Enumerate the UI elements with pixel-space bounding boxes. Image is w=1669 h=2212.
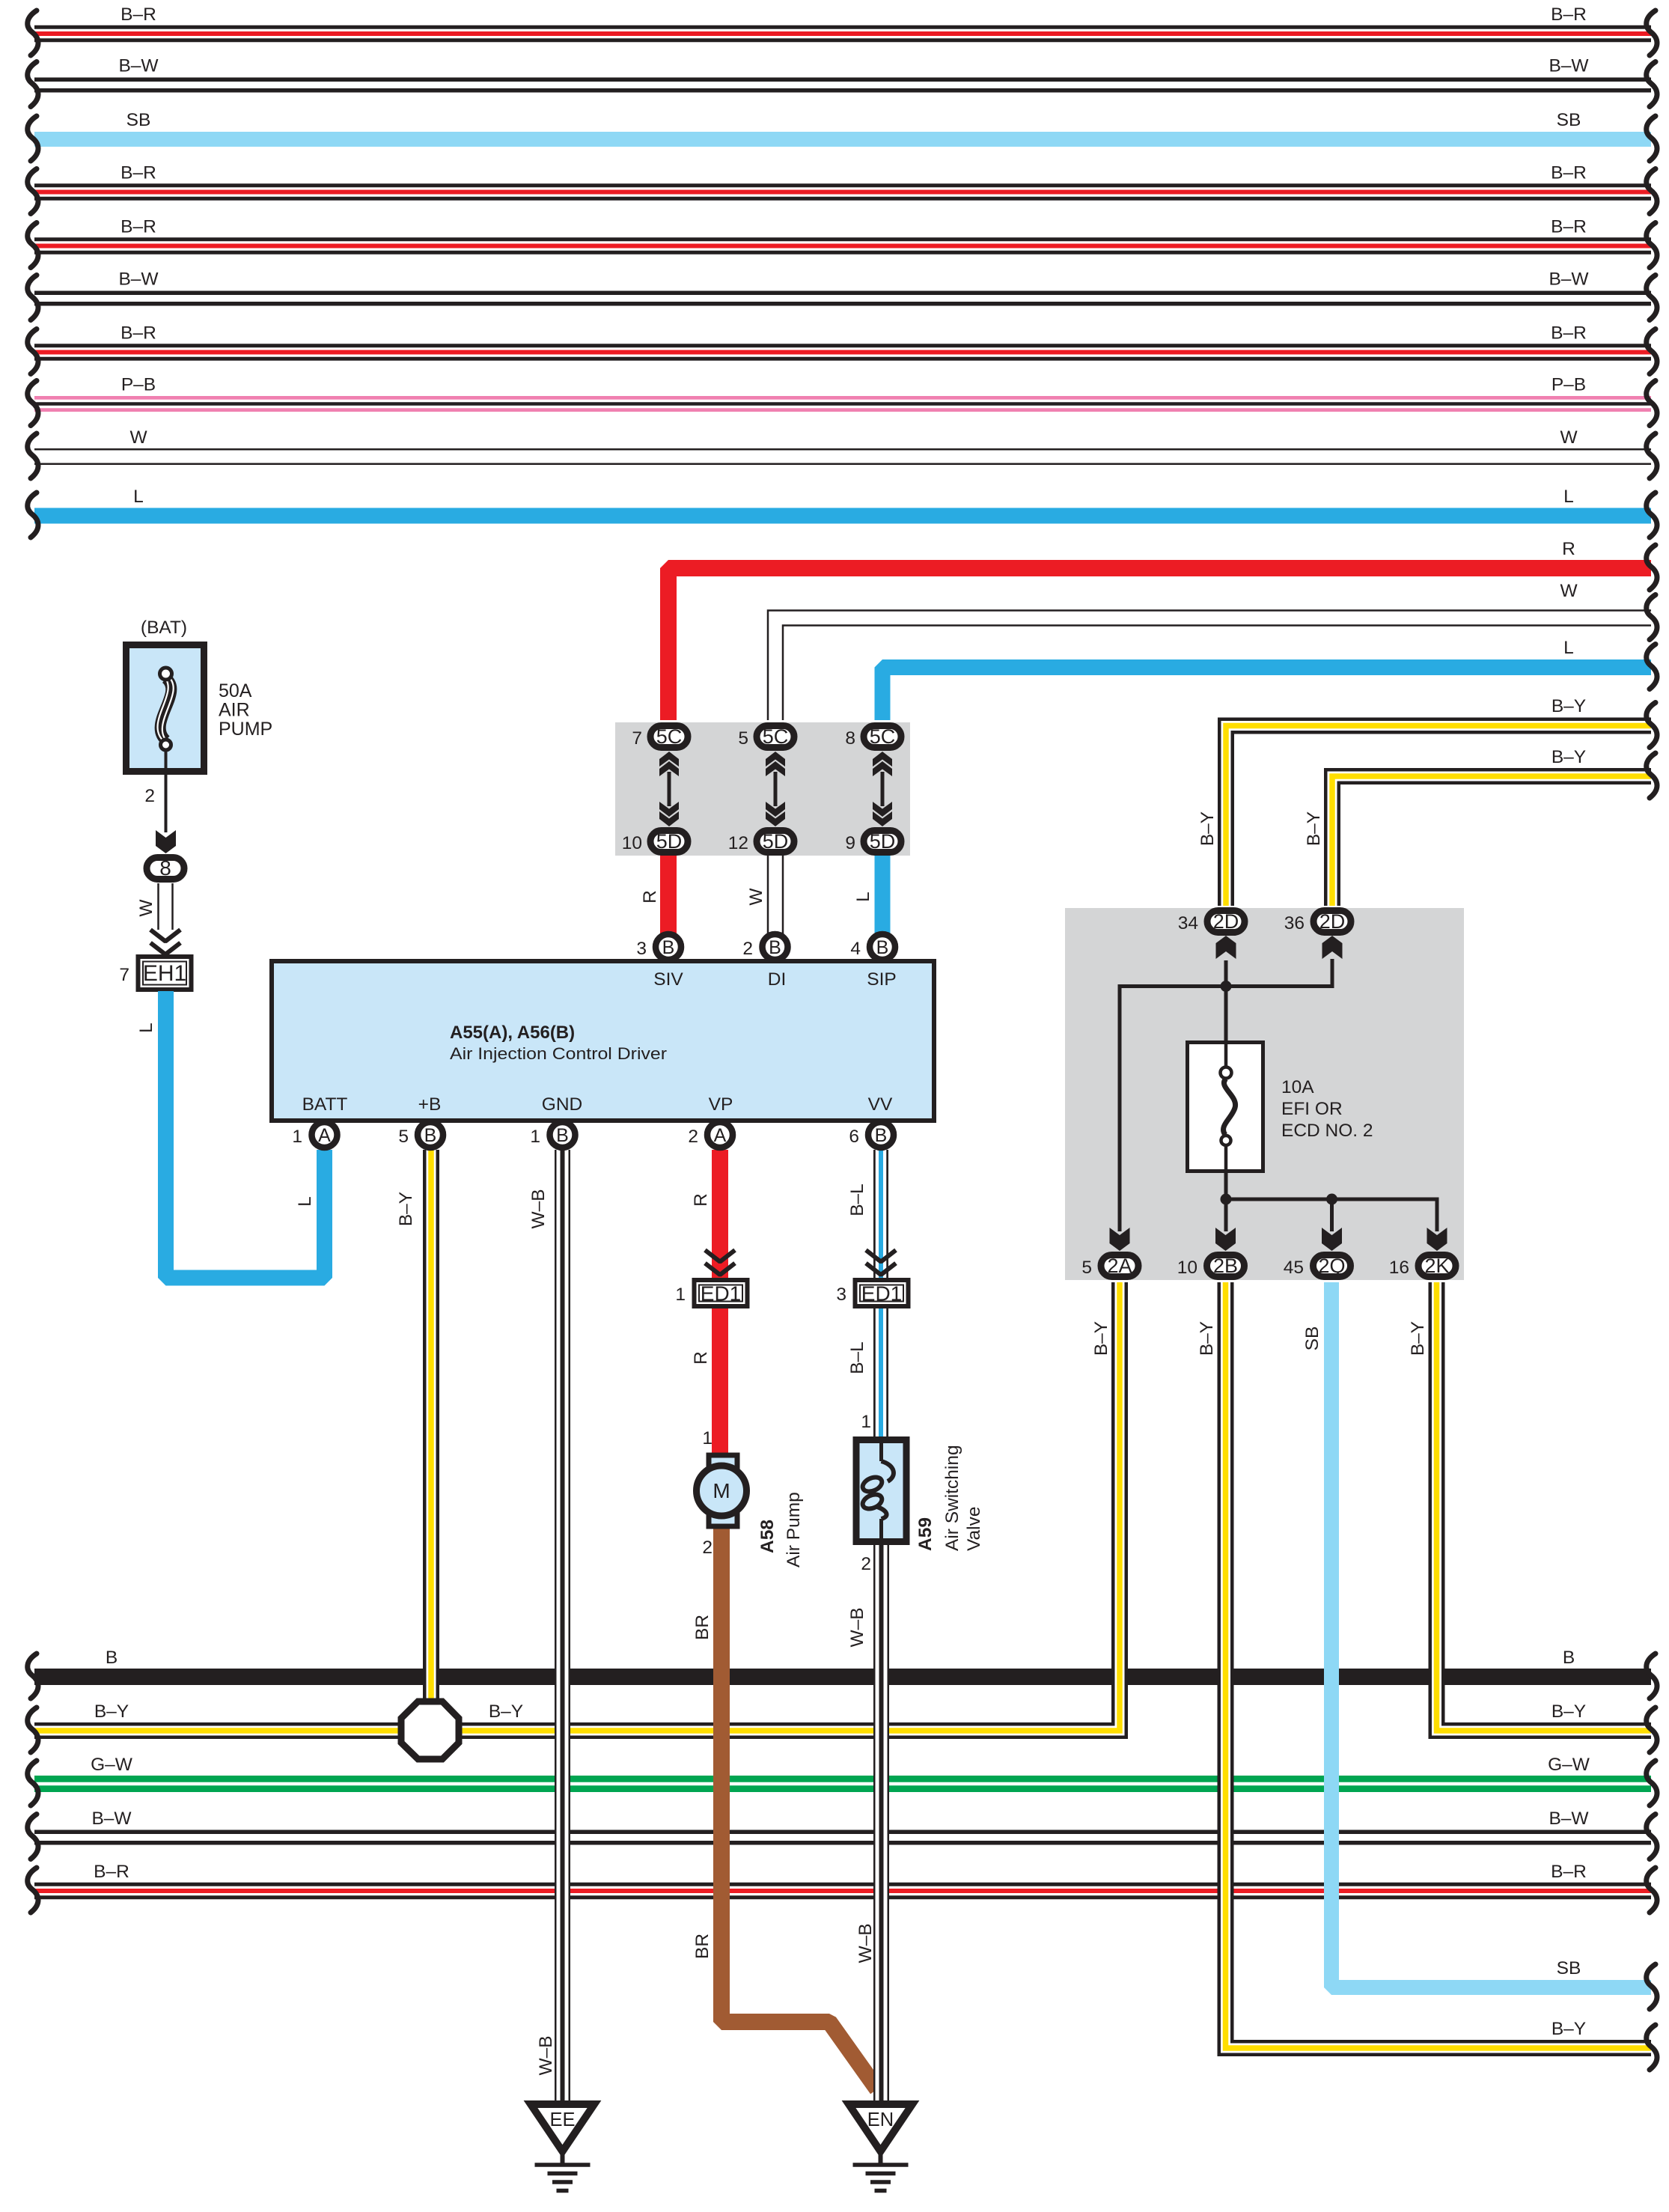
svg-text:Air Switching: Air Switching xyxy=(942,1445,962,1551)
connector 10 5D xyxy=(622,830,688,853)
svg-text:9: 9 xyxy=(845,833,855,853)
svg-text:B–Y: B–Y xyxy=(1408,1321,1428,1356)
wire G-W bus (bottom) xyxy=(28,1755,1657,1806)
svg-text:45: 45 xyxy=(1284,1258,1304,1278)
svg-text:EE: EE xyxy=(549,2109,575,2130)
wire SB (45-2Q to right edge) xyxy=(1302,1282,1657,2009)
wire junction to 16-2K xyxy=(1226,1199,1437,1231)
fuse 10A EFI OR ECD NO. 2 xyxy=(1188,1042,1373,1171)
svg-text:SB: SB xyxy=(1302,1326,1322,1351)
svg-text:5: 5 xyxy=(398,1127,409,1147)
pin 2 A (VP) xyxy=(688,1122,733,1148)
wire W (connector 8 to EH1) xyxy=(136,883,180,954)
wire fuse pin 2 to connector 8 xyxy=(144,775,176,853)
wire R (ED1 to air pump motor) xyxy=(691,1308,720,1456)
svg-text:ED1: ED1 xyxy=(701,1282,741,1305)
double arrow 8-5C to 9-5D xyxy=(881,772,885,806)
wire B-Y bus (bottom left, octagon junction to 5-2A) xyxy=(28,1282,1120,1752)
connector 45 2Q xyxy=(1284,1255,1351,1278)
svg-text:SB: SB xyxy=(1557,1958,1581,1978)
svg-text:GND: GND xyxy=(542,1094,582,1115)
svg-text:B: B xyxy=(1563,1648,1575,1668)
svg-text:W–B: W–B xyxy=(528,1189,549,1228)
node lower junction 2 xyxy=(1326,1194,1337,1205)
wire L (5D to SIP) xyxy=(875,853,891,934)
svg-text:5D: 5D xyxy=(656,830,683,853)
wire L (EH1 to BATT pin 1A) xyxy=(136,991,325,1278)
arrow into 16 2K xyxy=(1427,1228,1447,1251)
svg-text:10: 10 xyxy=(1177,1258,1197,1278)
svg-text:P–B: P–B xyxy=(121,375,156,395)
connector 16 2K xyxy=(1389,1255,1456,1278)
svg-text:G–W: G–W xyxy=(91,1755,133,1775)
wire W bus 9 xyxy=(28,427,1657,478)
svg-text:+B: +B xyxy=(418,1094,442,1115)
svg-text:B: B xyxy=(769,937,781,958)
svg-text:B–W: B–W xyxy=(1549,269,1589,290)
svg-text:SB: SB xyxy=(126,110,151,130)
wire B-W bus (bottom) xyxy=(28,1809,1657,1859)
wire fuse to lower junction xyxy=(1224,1171,1228,1231)
svg-text:2D: 2D xyxy=(1213,910,1239,933)
connector 1 ED1 xyxy=(675,1280,747,1306)
wire R (to 7-5C) xyxy=(640,539,1657,904)
ground EN xyxy=(849,2104,912,2151)
svg-text:2B: 2B xyxy=(1213,1255,1238,1277)
svg-text:7: 7 xyxy=(632,728,642,749)
svg-text:2: 2 xyxy=(688,1127,698,1147)
wire B-W bus 2 xyxy=(28,56,1657,107)
svg-text:B–Y: B–Y xyxy=(1304,811,1324,846)
wire L bus 10 xyxy=(28,487,1657,537)
svg-text:W: W xyxy=(1560,427,1578,448)
svg-text:L: L xyxy=(1563,487,1574,507)
svg-text:L: L xyxy=(295,1196,315,1207)
svg-text:SIP: SIP xyxy=(867,969,897,990)
wire B-R bus (bottom) xyxy=(28,1862,1657,1913)
wire B-Y (to 36-2D) xyxy=(1304,747,1657,906)
svg-text:W–B: W–B xyxy=(847,1607,867,1647)
wire R (5D to SIV) xyxy=(660,853,677,934)
svg-text:W: W xyxy=(129,427,147,448)
svg-text:A55(A), A56(B): A55(A), A56(B) xyxy=(450,1023,575,1043)
svg-text:Valve: Valve xyxy=(964,1507,984,1551)
svg-text:B–Y: B–Y xyxy=(1551,696,1586,716)
svg-text:8: 8 xyxy=(845,728,855,749)
svg-text:G–W: G–W xyxy=(1548,1755,1590,1775)
svg-text:SB: SB xyxy=(1557,110,1581,130)
svg-text:L: L xyxy=(1563,638,1574,658)
wire R (VP to ED1) xyxy=(691,1150,735,1280)
connector 8 5C xyxy=(845,725,901,749)
svg-text:ED1: ED1 xyxy=(861,1282,902,1305)
svg-text:EN: EN xyxy=(867,2109,894,2130)
wire B-L (ED1 to air switching valve) xyxy=(847,1308,881,1439)
svg-text:1: 1 xyxy=(292,1127,302,1147)
solenoid valve A59 Air Switching Valve xyxy=(856,1440,984,1552)
svg-text:7: 7 xyxy=(119,965,129,985)
node lower junction 1 xyxy=(1221,1194,1232,1205)
svg-text:2: 2 xyxy=(702,1538,713,1558)
connector 36 2D xyxy=(1284,910,1351,933)
svg-text:ECD NO. 2: ECD NO. 2 xyxy=(1281,1121,1373,1141)
svg-text:5C: 5C xyxy=(870,725,896,748)
svg-text:B–W: B–W xyxy=(118,269,159,290)
svg-text:2: 2 xyxy=(861,1554,871,1574)
svg-text:(BAT): (BAT) xyxy=(141,618,187,638)
svg-text:8: 8 xyxy=(159,856,171,880)
svg-text:1: 1 xyxy=(675,1285,686,1305)
arrow into 10 2B xyxy=(1215,1228,1236,1251)
wire L (to 8-5C) xyxy=(853,638,1657,902)
svg-text:2Q: 2Q xyxy=(1318,1255,1345,1277)
svg-text:B–R: B–R xyxy=(1551,1862,1587,1882)
svg-text:AIR: AIR xyxy=(219,700,250,721)
svg-text:W: W xyxy=(1560,581,1578,601)
svg-text:B–Y: B–Y xyxy=(1551,747,1586,767)
svg-text:1: 1 xyxy=(530,1127,540,1147)
wire B-L (VV to ED1) xyxy=(847,1150,896,1280)
svg-text:DI: DI xyxy=(768,969,787,990)
svg-text:B–R: B–R xyxy=(94,1862,129,1882)
svg-text:BR: BR xyxy=(692,1615,713,1640)
wire B-W bus 6 xyxy=(28,269,1657,320)
wire B-Y (16-2K to right edge) xyxy=(1408,1282,1657,1752)
svg-text:B–Y: B–Y xyxy=(94,1701,129,1722)
svg-text:B: B xyxy=(424,1125,437,1146)
wire 34-2D to junction xyxy=(1224,960,1228,1041)
pin 4 B (SIP) xyxy=(850,934,895,960)
arrow into 34 2D xyxy=(1216,936,1236,959)
svg-text:R: R xyxy=(1562,539,1575,559)
svg-text:B–Y: B–Y xyxy=(489,1701,523,1722)
wire W (5D to DI) xyxy=(767,853,769,934)
svg-text:6: 6 xyxy=(849,1127,859,1147)
svg-text:SIV: SIV xyxy=(653,969,683,990)
svg-text:B–W: B–W xyxy=(1549,56,1589,76)
svg-text:L: L xyxy=(853,892,873,902)
svg-text:B–R: B–R xyxy=(1551,4,1587,25)
motor A58 Air Pump xyxy=(697,1455,805,1567)
wire junction to 36-2D xyxy=(1226,959,1332,987)
ground EE xyxy=(531,2104,594,2151)
wire B-Y (+B to octagon junction) xyxy=(396,1150,431,1714)
svg-text:Air Pump: Air Pump xyxy=(784,1492,804,1567)
svg-text:B–R: B–R xyxy=(120,323,156,344)
svg-text:A59: A59 xyxy=(915,1517,936,1551)
svg-text:A: A xyxy=(318,1125,331,1146)
svg-text:B: B xyxy=(875,1125,888,1146)
connector 34 2D xyxy=(1178,910,1245,933)
wire P-B bus 8 xyxy=(28,375,1657,426)
wire W (to 5-5C) xyxy=(746,581,1657,906)
wire junction to 5-2A xyxy=(1120,987,1226,1232)
svg-text:M: M xyxy=(713,1479,730,1502)
pin 2 B (DI) xyxy=(742,934,787,960)
wire B bus (bottom) xyxy=(28,1648,1657,1698)
svg-text:3: 3 xyxy=(836,1285,846,1305)
arrow into 45 2Q xyxy=(1322,1228,1342,1251)
svg-text:5C: 5C xyxy=(656,725,683,748)
svg-text:2: 2 xyxy=(144,786,155,806)
wire B-R bus 4 xyxy=(28,163,1657,214)
svg-text:B–Y: B–Y xyxy=(1091,1321,1111,1356)
svg-text:5D: 5D xyxy=(870,830,896,853)
connector 5 2A xyxy=(1081,1255,1138,1278)
svg-text:B–R: B–R xyxy=(1551,163,1587,183)
svg-text:B–Y: B–Y xyxy=(1197,811,1218,846)
connector 7 EH1 xyxy=(119,957,191,990)
wire B-R bus 1 xyxy=(28,4,1657,55)
svg-text:VP: VP xyxy=(709,1094,733,1115)
svg-text:B–L: B–L xyxy=(847,1341,867,1374)
svg-text:B–R: B–R xyxy=(120,4,156,25)
svg-text:B–Y: B–Y xyxy=(396,1192,416,1226)
svg-text:BATT: BATT xyxy=(302,1094,348,1115)
svg-text:5C: 5C xyxy=(763,725,789,748)
junction block 5C/5D (gray panel) xyxy=(615,722,910,856)
svg-text:B–R: B–R xyxy=(1551,323,1587,344)
wire W-B (GND to EE ground) xyxy=(528,1150,563,2100)
svg-text:PUMP: PUMP xyxy=(219,719,272,740)
wire B-Y (10-2B to right edge bottom) xyxy=(1197,1282,1657,2070)
svg-text:R: R xyxy=(640,890,660,904)
connector 5 5C xyxy=(738,725,794,749)
svg-text:2K: 2K xyxy=(1424,1255,1449,1277)
wire W-B (valve to EN ground) xyxy=(847,1544,882,2100)
svg-text:B: B xyxy=(876,937,889,958)
pin 1 B (GND) xyxy=(530,1122,575,1148)
double arrow 7-5C to 10-5D xyxy=(668,772,671,806)
svg-text:EFI OR: EFI OR xyxy=(1281,1099,1343,1119)
connector 7 5C xyxy=(632,725,688,749)
svg-text:R: R xyxy=(691,1193,711,1207)
ECU A55/A56 Air Injection Control Driver xyxy=(272,961,934,1121)
svg-text:B–Y: B–Y xyxy=(1551,2019,1586,2039)
svg-text:12: 12 xyxy=(728,833,748,853)
svg-text:A58: A58 xyxy=(757,1520,778,1553)
junction block 2A/2B/2D/2K/2Q with fuse (gray panel) xyxy=(1065,908,1464,1280)
svg-text:VV: VV xyxy=(868,1094,893,1115)
svg-text:3: 3 xyxy=(636,939,647,959)
fuse 50A AIR PUMP (BAT) xyxy=(126,618,273,775)
svg-text:Air Injection Control Driver: Air Injection Control Driver xyxy=(450,1044,668,1063)
svg-text:10A: 10A xyxy=(1281,1077,1314,1097)
pin 5 B (+B) xyxy=(398,1122,443,1148)
pin 6 B (VV) xyxy=(849,1122,894,1148)
svg-text:B–Y: B–Y xyxy=(1551,1701,1586,1722)
svg-text:B–L: B–L xyxy=(847,1183,867,1216)
arrow into 5 2A xyxy=(1110,1228,1130,1251)
svg-text:B–W: B–W xyxy=(91,1809,132,1829)
svg-text:2A: 2A xyxy=(1107,1255,1132,1277)
svg-text:1: 1 xyxy=(702,1428,713,1448)
wire B-Y (to 34-2D) xyxy=(1197,696,1657,906)
svg-text:B–R: B–R xyxy=(120,217,156,237)
svg-text:EH1: EH1 xyxy=(143,961,186,986)
wire B-R bus 5 xyxy=(28,217,1657,268)
double arrow 5-5C to 12-5D xyxy=(774,772,778,806)
svg-text:W–B: W–B xyxy=(536,2035,556,2075)
svg-text:2: 2 xyxy=(742,939,753,959)
svg-text:P–B: P–B xyxy=(1551,375,1586,395)
wire junction to 45-2Q xyxy=(1330,1199,1334,1231)
svg-text:A: A xyxy=(714,1125,727,1146)
svg-text:5: 5 xyxy=(738,728,748,749)
svg-text:W: W xyxy=(746,888,766,906)
svg-text:B–R: B–R xyxy=(120,163,156,183)
svg-text:B: B xyxy=(106,1648,118,1668)
svg-text:B: B xyxy=(556,1125,569,1146)
svg-text:50A: 50A xyxy=(219,680,252,701)
svg-text:L: L xyxy=(133,487,144,507)
svg-text:5D: 5D xyxy=(763,830,789,853)
svg-text:10: 10 xyxy=(622,833,642,853)
svg-text:16: 16 xyxy=(1389,1258,1409,1278)
svg-text:4: 4 xyxy=(850,939,861,959)
connector 9 5D xyxy=(845,830,901,853)
svg-text:BR: BR xyxy=(692,1934,713,1959)
svg-text:B–W: B–W xyxy=(1549,1809,1589,1829)
svg-text:B–W: B–W xyxy=(118,56,159,76)
connector 10 2B xyxy=(1177,1255,1245,1278)
svg-text:B–R: B–R xyxy=(1551,217,1587,237)
arrow into 36 2D xyxy=(1322,936,1343,959)
svg-text:L: L xyxy=(136,1023,156,1033)
connector 12 5D xyxy=(728,830,794,853)
svg-text:W: W xyxy=(136,899,156,917)
connector 3 ED1 xyxy=(836,1280,908,1306)
pin 3 B (SIV) xyxy=(636,934,681,960)
pin 1 A (BATT) xyxy=(292,1122,337,1148)
svg-text:B–Y: B–Y xyxy=(1197,1321,1217,1356)
wire BR (air pump to EN ground) xyxy=(692,1526,877,2089)
connector 8 (round) xyxy=(147,858,184,880)
svg-text:2D: 2D xyxy=(1319,910,1346,933)
svg-text:W–B: W–B xyxy=(855,1923,876,1963)
svg-text:B: B xyxy=(662,937,675,958)
svg-text:36: 36 xyxy=(1284,913,1305,933)
node octagon junction (B-Y) xyxy=(401,1701,459,1759)
wire SB bus 3 xyxy=(28,110,1657,161)
wire B-R bus 7 xyxy=(28,323,1657,374)
svg-text:5: 5 xyxy=(1081,1258,1092,1278)
svg-text:R: R xyxy=(691,1351,711,1365)
svg-text:1: 1 xyxy=(861,1412,871,1432)
node junction under 34-2D xyxy=(1221,981,1232,992)
svg-text:34: 34 xyxy=(1178,913,1198,933)
